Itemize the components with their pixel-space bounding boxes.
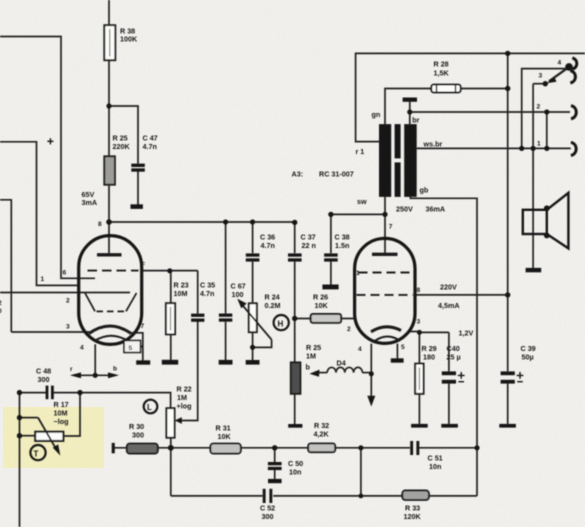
svg-text:10K: 10K bbox=[218, 432, 232, 441]
svg-text:1: 1 bbox=[537, 141, 541, 148]
svg-text:300: 300 bbox=[262, 512, 274, 521]
svg-text:ws.br: ws.br bbox=[423, 139, 443, 148]
svg-text:8: 8 bbox=[417, 287, 421, 294]
svg-text:4: 4 bbox=[80, 345, 84, 352]
svg-text:2: 2 bbox=[347, 326, 351, 333]
svg-text:L: L bbox=[147, 403, 152, 412]
svg-text:4.7n: 4.7n bbox=[200, 289, 214, 298]
svg-text:2: 2 bbox=[66, 298, 70, 305]
svg-text:+log: +log bbox=[177, 402, 192, 411]
svg-text:F: F bbox=[141, 261, 145, 268]
svg-text:300: 300 bbox=[132, 431, 144, 440]
svg-text:10n: 10n bbox=[429, 462, 441, 471]
svg-text:22 n: 22 n bbox=[302, 241, 316, 250]
svg-text:120K: 120K bbox=[404, 512, 422, 521]
svg-text:3mA: 3mA bbox=[82, 198, 98, 207]
svg-text:4: 4 bbox=[358, 346, 362, 353]
svg-text:1M: 1M bbox=[306, 352, 316, 361]
svg-text:4.7n: 4.7n bbox=[143, 142, 157, 151]
svg-text:10M: 10M bbox=[174, 289, 188, 298]
svg-text:4: 4 bbox=[558, 60, 562, 67]
svg-text:br: br bbox=[412, 116, 419, 125]
svg-text:4,5mA: 4,5mA bbox=[438, 301, 460, 310]
svg-text:−log: −log bbox=[54, 417, 69, 426]
svg-text:100K: 100K bbox=[120, 35, 138, 44]
svg-text:1,5K: 1,5K bbox=[434, 69, 450, 78]
svg-text:5: 5 bbox=[129, 345, 133, 352]
svg-text:10K: 10K bbox=[315, 301, 329, 310]
svg-text:r: r bbox=[70, 366, 73, 373]
svg-text:1: 1 bbox=[41, 276, 45, 283]
svg-text:25 µ: 25 µ bbox=[447, 353, 461, 362]
svg-text:3: 3 bbox=[417, 319, 421, 326]
svg-text:sw: sw bbox=[357, 197, 367, 206]
svg-text:7: 7 bbox=[141, 323, 145, 330]
svg-text:D4: D4 bbox=[337, 359, 346, 368]
svg-text:1: 1 bbox=[356, 270, 360, 277]
svg-text:gn: gn bbox=[372, 110, 381, 119]
svg-text:220K: 220K bbox=[113, 142, 131, 151]
svg-text:A3:: A3: bbox=[292, 170, 304, 179]
svg-text:gb: gb bbox=[420, 186, 429, 195]
svg-text:T: T bbox=[34, 450, 39, 459]
svg-text:7: 7 bbox=[389, 223, 393, 230]
svg-text:300: 300 bbox=[38, 375, 50, 384]
svg-text:250V: 250V bbox=[396, 205, 413, 214]
svg-text:10n: 10n bbox=[289, 468, 301, 477]
svg-text:3: 3 bbox=[539, 73, 543, 80]
svg-text:100: 100 bbox=[232, 290, 244, 299]
svg-text:1.5n: 1.5n bbox=[335, 241, 349, 250]
svg-text:180: 180 bbox=[423, 353, 435, 362]
svg-text:1,2V: 1,2V bbox=[459, 329, 474, 338]
svg-text:RC 31-007: RC 31-007 bbox=[319, 170, 354, 179]
svg-text:5: 5 bbox=[401, 344, 405, 351]
svg-text:4,2K: 4,2K bbox=[314, 430, 330, 439]
svg-text:4.7n: 4.7n bbox=[261, 241, 275, 250]
svg-text:b: b bbox=[306, 363, 311, 372]
svg-text:2: 2 bbox=[537, 104, 541, 111]
svg-text:8: 8 bbox=[98, 221, 102, 228]
svg-text:b: b bbox=[113, 366, 117, 373]
svg-text:R 28: R 28 bbox=[434, 60, 449, 69]
svg-text:50µ: 50µ bbox=[522, 353, 534, 362]
svg-text:r 1: r 1 bbox=[356, 147, 365, 156]
svg-text:H: H bbox=[278, 320, 284, 329]
svg-text:6: 6 bbox=[63, 270, 67, 277]
svg-text:0.2M: 0.2M bbox=[265, 301, 281, 310]
svg-text:220V: 220V bbox=[440, 283, 457, 292]
svg-text:36mA: 36mA bbox=[426, 205, 446, 214]
svg-text:3: 3 bbox=[66, 324, 70, 331]
